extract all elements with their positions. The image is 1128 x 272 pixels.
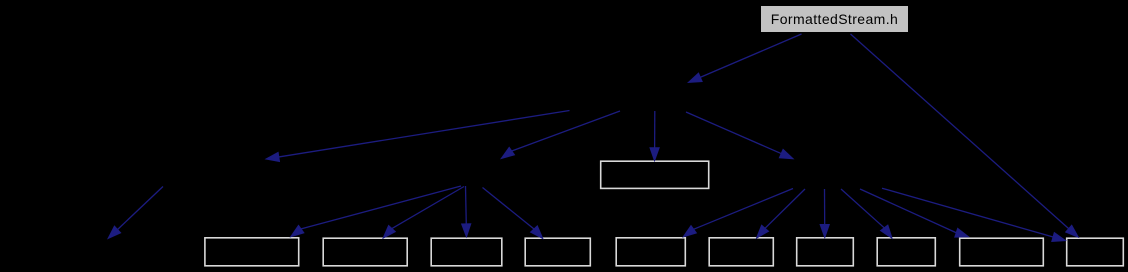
node box8 (bottom row)	[877, 238, 935, 266]
node box1 (bottom row)	[205, 238, 299, 266]
edge hub1 -> hub2	[500, 111, 620, 159]
edge hub3 -> box5	[682, 189, 793, 238]
edge hub3 -> box7	[819, 189, 830, 239]
node box9 (bottom row)	[960, 238, 1044, 266]
edge left node -> bottom-left node	[107, 187, 163, 240]
edge hub1 -> middle box	[649, 111, 660, 162]
node box3 (bottom row)	[431, 238, 502, 266]
node box6 (bottom row)	[709, 238, 773, 266]
edge hub3 -> box10 (second)	[882, 188, 1067, 242]
node box2 (bottom row)	[323, 238, 407, 266]
node box7 (bottom row)	[797, 238, 854, 266]
edge hub2 -> box2	[382, 187, 464, 240]
node box4 (bottom row)	[525, 238, 590, 266]
edge hub2 -> box3	[461, 186, 472, 238]
edge hub3 -> box8	[841, 189, 893, 239]
edge hub1 -> left node	[265, 111, 570, 163]
edge hub1 -> hub3	[686, 112, 795, 159]
edge hub3 -> box9	[860, 189, 970, 238]
node FormattedStream.h (root)	[761, 6, 908, 32]
edge hub3 -> box6	[756, 189, 806, 239]
node box (middle, hidden label)	[601, 161, 709, 188]
node box5 (bottom row)	[616, 238, 685, 266]
edge hub2 -> box1	[290, 186, 462, 238]
node box10 (bottom row)	[1067, 238, 1124, 266]
edge hub2 -> box4	[483, 188, 544, 240]
edge FormattedStream.h -> box10	[851, 34, 1080, 238]
edge FormattedStream.h -> hub1 (raw_ostream.h)	[687, 34, 802, 83]
